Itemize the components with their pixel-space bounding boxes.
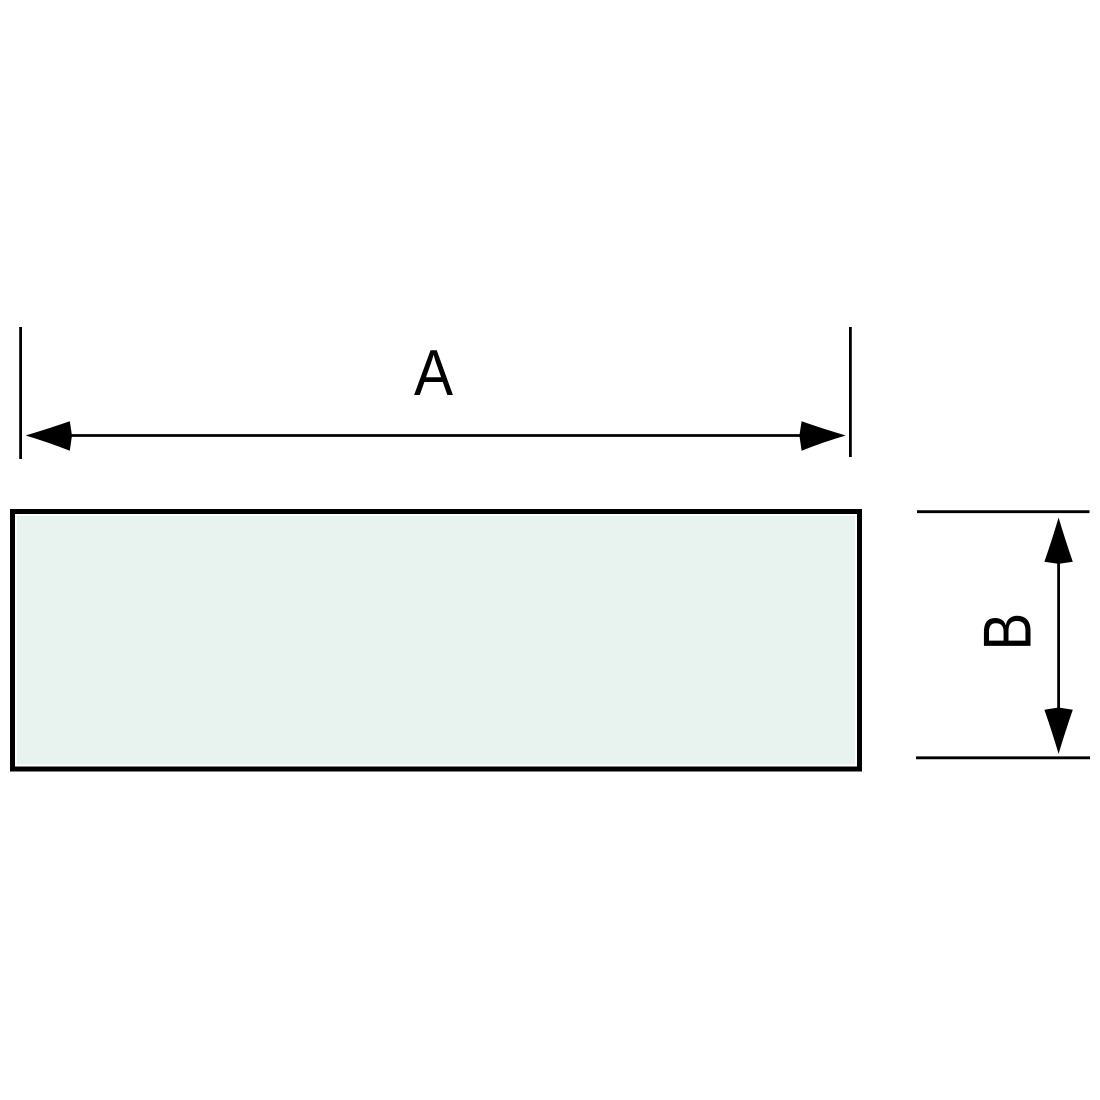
arrowhead A left	[26, 421, 72, 450]
svg-text:B: B	[970, 613, 1046, 651]
arrowhead B bottom	[1044, 708, 1072, 754]
svg-text:A: A	[414, 337, 454, 410]
extension line right (dimension A)	[849, 327, 852, 457]
arrowhead B top	[1044, 518, 1072, 564]
dimension line B	[1057, 558, 1060, 713]
extension line left (dimension A)	[19, 327, 22, 459]
plate fill	[17, 516, 855, 765]
dimension line A	[60, 434, 812, 437]
extension line top (dimension B)	[917, 510, 1090, 513]
arrowhead A right	[799, 421, 845, 450]
extension line bottom (dimension B)	[916, 756, 1090, 759]
plate outline (rectangle)	[13, 512, 860, 770]
